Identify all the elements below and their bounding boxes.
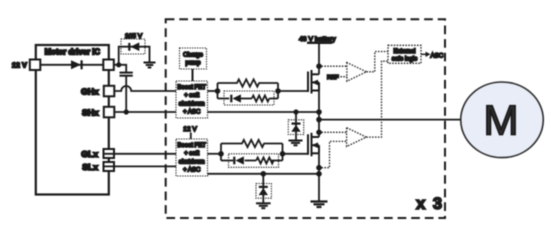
- svg-text:+ ASC: + ASC: [183, 168, 201, 174]
- resistor R4 (lower gate off): [256, 158, 273, 164]
- node: junction capacitor/SHx: [124, 109, 129, 114]
- wire: VCP pin to capacitor drop: [114, 65, 126, 73]
- wire: lower off branch: [221, 160, 233, 162]
- node: lower network right: [280, 151, 286, 157]
- ground G1 (105V clamp): [144, 63, 156, 68]
- pin GLx: [104, 149, 115, 158]
- wire: Q2 source to ground: [318, 153, 320, 201]
- ground G3 (main): [311, 202, 328, 208]
- svg-text:External: External: [393, 49, 415, 55]
- dashed box around D5: [288, 120, 303, 135]
- dashed box around 105V zener: [121, 39, 145, 54]
- svg-text:x 3: x 3: [416, 195, 443, 213]
- node: motor line junction: [316, 117, 322, 123]
- svg-text:REF: REF: [327, 75, 339, 81]
- pin: 12V input pin square: [30, 60, 41, 71]
- svg-text:GLx: GLx: [81, 149, 98, 159]
- node: lower network left: [218, 151, 224, 157]
- zener D5 (phase clamp, points up): [291, 123, 300, 132]
- wire: to Q1 gate: [278, 90, 308, 92]
- resistor R3 (lower gate on): [221, 140, 283, 147]
- pin GHx: [104, 86, 115, 97]
- node: SLx junction: [316, 171, 322, 177]
- node: SLx zener junction: [261, 171, 267, 177]
- boost FET box 1 (high side): [176, 81, 208, 118]
- wire: upper network loop: [217, 83, 219, 99]
- svg-text:48 V battery: 48 V battery: [299, 36, 336, 43]
- transistor Q2 (low side NMOS): [308, 133, 319, 157]
- Q1 body arrow: [312, 80, 319, 86]
- svg-text:Motor driver IC: Motor driver IC: [45, 47, 101, 56]
- svg-text:Charge: Charge: [183, 53, 203, 59]
- svg-text:ASC: ASC: [431, 53, 444, 60]
- dotted wire: Q2 drain to U3 input: [322, 131, 347, 133]
- dashed box around upper off branch: [224, 91, 274, 105]
- wire: 12V pin to internal diode to VCP pin: [40, 64, 103, 66]
- wire: lower network loop: [220, 144, 222, 161]
- Q2 body arrow: [312, 142, 319, 148]
- node: comparator tap on Q2 source: [316, 165, 322, 171]
- comparator U3 (low side monitor, dotted): [347, 128, 367, 147]
- wire SLx to boost box: [105, 165, 177, 167]
- wire: boost box2 to lower gate network: [208, 153, 222, 155]
- enclosure dashed box (one of three phase legs): [166, 19, 445, 218]
- svg-text:Boost FET: Boost FET: [178, 143, 207, 149]
- svg-text:GHx: GHx: [81, 87, 99, 97]
- wire: capacitor to SHx node: [125, 76, 127, 112]
- wire: upper off branch: [218, 98, 230, 100]
- motor M: [461, 82, 544, 158]
- wire: charge pump to boost box: [192, 69, 194, 81]
- pin SLx: [104, 162, 115, 171]
- svg-text:+ soft: + soft: [184, 93, 199, 99]
- node: upper network right: [275, 88, 281, 94]
- resistor R2 (upper gate off): [252, 96, 269, 102]
- svg-text:105 V: 105 V: [125, 33, 143, 40]
- wire: rail to Q1 drain: [318, 43, 320, 75]
- node: upper network left: [215, 88, 221, 94]
- svg-text:Boost FET: Boost FET: [178, 85, 207, 91]
- wire: 105V clamp branch (up, across, down to ground): [119, 47, 150, 65]
- svg-text:pump: pump: [185, 61, 201, 67]
- svg-text:shutdown: shutdown: [179, 101, 205, 107]
- svg-text:+ ASC: + ASC: [183, 110, 201, 116]
- ground G4 (under D6): [256, 203, 271, 208]
- svg-text:12 V: 12 V: [183, 126, 197, 133]
- node: junction at VCP: [116, 62, 121, 67]
- wire GHx with hop over capacitor wire: [114, 86, 176, 91]
- diode D4 (lower off path, points left): [233, 156, 244, 164]
- motor driver IC U1 body: [36, 45, 109, 195]
- wire: SLx line from boost box2 to source: [208, 173, 320, 175]
- pin SHx: [104, 107, 115, 118]
- motor feed wire: [319, 119, 462, 121]
- dotted wire: U3 output to safe logic: [366, 61, 388, 137]
- wire: SLx zener drop: [262, 174, 264, 203]
- wire: to Q2 gate: [283, 153, 309, 155]
- ASC output arrow: [421, 53, 426, 55]
- transistor Q1 (high side NMOS): [308, 70, 319, 94]
- capacitor C1 (bootstrap): [120, 73, 133, 76]
- node: comparator tap on Q1 drain: [316, 63, 322, 69]
- zener D2 105 V (points left): [128, 42, 139, 51]
- wire: boost box1 to upper gate network: [208, 90, 218, 92]
- svg-text:SHx: SHx: [82, 108, 99, 118]
- diode D3 (upper off path, points left): [230, 94, 241, 102]
- wire SHx to phase node: [114, 111, 319, 113]
- node: comparator tap on Q2 drain: [316, 130, 322, 136]
- wire GLx to boost box: [105, 153, 177, 155]
- svg-text:shutdown: shutdown: [179, 159, 205, 165]
- charge pump box: [180, 48, 207, 69]
- dotted wire: Q1 drain to U2 input: [322, 65, 347, 67]
- wire: phase node vertical (Q1 source to Q2 drain): [318, 91, 320, 138]
- comparator U2 (high side monitor, dotted): [347, 63, 367, 82]
- dotted wire: Q2 source to U3 input: [322, 141, 347, 167]
- ground G2 (arrow ground under D5): [289, 141, 303, 146]
- connector 12V label to boost box 2: [190, 133, 192, 140]
- resistor R1 (upper gate on): [218, 79, 279, 86]
- wire: SHx zener drop: [295, 112, 297, 140]
- 48 V battery rail: [307, 42, 332, 44]
- dashed box around lower off branch: [229, 154, 279, 168]
- boost FET box 2 (low side): [176, 139, 208, 176]
- diode D1 (internal, points right): [71, 60, 83, 69]
- external safe logic box: [388, 45, 421, 63]
- node: SHx zener junction: [293, 109, 298, 114]
- zener D6 (gate clamp, points up): [259, 186, 268, 195]
- svg-text:12 V: 12 V: [12, 61, 27, 70]
- svg-text:SLx: SLx: [82, 162, 98, 172]
- dashed box around D6: [256, 184, 271, 199]
- dotted wire: REF to U2 input: [338, 76, 347, 78]
- svg-text:safe logic: safe logic: [392, 56, 417, 62]
- svg-text:M: M: [484, 97, 519, 144]
- pin: VCP top-right pin square: [103, 60, 114, 71]
- node: SHx junction: [316, 109, 322, 115]
- svg-text:+ soft: + soft: [184, 151, 199, 157]
- dotted wire: U2 output to safe logic: [366, 52, 388, 72]
